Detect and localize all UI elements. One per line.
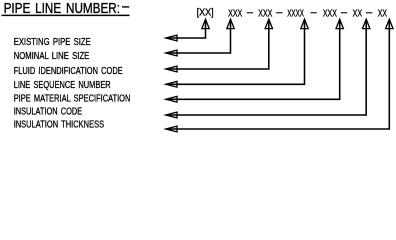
svg-text:–: – xyxy=(247,7,253,18)
connector row 7: wire from XX(2) to INSULATION THICKNESS xyxy=(166,19,389,129)
connector row 2 up arrowhead xyxy=(227,19,234,28)
title underline xyxy=(2,14,130,16)
connector row 4 left arrowhead xyxy=(166,81,177,87)
svg-text:XX: XX xyxy=(378,9,388,20)
connector row 5 up arrowhead xyxy=(336,19,343,28)
svg-text:XX: XX xyxy=(353,9,363,20)
svg-text:–: – xyxy=(276,7,282,18)
svg-text:INSULATION THICKNESS: INSULATION THICKNESS xyxy=(14,119,105,130)
connector row 4: wire from XXXX to LINE SEQUENCE NUMBER xyxy=(166,19,305,84)
svg-text:EXISTING PIPE SIZE: EXISTING PIPE SIZE xyxy=(14,37,91,48)
connector row 1: wire from [XX] to EXISTING PIPE SIZE xyxy=(166,19,206,38)
svg-text:XXX: XXX xyxy=(258,9,272,20)
connector row 2 left arrowhead xyxy=(166,50,177,56)
connector row 5 left arrowhead xyxy=(166,96,177,102)
connector row 6 left arrowhead xyxy=(166,112,177,118)
svg-text:[XX]: [XX] xyxy=(197,7,214,18)
svg-text:–: – xyxy=(311,7,317,18)
svg-text:FLUID IDENDIFICATION CODE: FLUID IDENDIFICATION CODE xyxy=(14,66,123,77)
svg-text:NOMINAL LINE SIZE: NOMINAL LINE SIZE xyxy=(14,51,90,62)
svg-text:–: – xyxy=(341,7,347,18)
connector row 3 left arrowhead xyxy=(166,66,177,72)
svg-text:INSULATION CODE: INSULATION CODE xyxy=(14,107,83,118)
connector row 4 up arrowhead xyxy=(301,19,308,28)
connector row 3: wire from XXX(2) to FLUID IDENDIFICATION CODE xyxy=(166,19,269,69)
svg-text:XXX: XXX xyxy=(323,9,337,20)
svg-text:PIPE MATERIAL SPECIFICATION: PIPE MATERIAL SPECIFICATION xyxy=(14,94,131,105)
connector row 6: wire from XX(1) to INSULATION CODE xyxy=(166,19,366,115)
svg-text:–: – xyxy=(366,7,372,18)
connector row 2: wire from XXX(1) to NOMINAL LINE SIZE xyxy=(166,19,231,53)
connector row 3 up arrowhead xyxy=(265,19,272,28)
connector row 7 left arrowhead xyxy=(166,126,177,132)
connector row 5: wire from XXX(3) to PIPE MATERIAL SPECIFICATION xyxy=(166,19,340,99)
connector row 1 left arrowhead xyxy=(166,35,177,41)
svg-text:XXX: XXX xyxy=(228,9,242,20)
connector row 6 up arrowhead xyxy=(363,19,370,28)
svg-text:XXXX: XXXX xyxy=(287,9,304,20)
title dash xyxy=(122,6,129,8)
connector row 1 up arrowhead xyxy=(202,19,209,28)
svg-text:LINE SEQUENCE NUMBER: LINE SEQUENCE NUMBER xyxy=(14,80,111,91)
connector row 7 up arrowhead xyxy=(386,19,393,28)
